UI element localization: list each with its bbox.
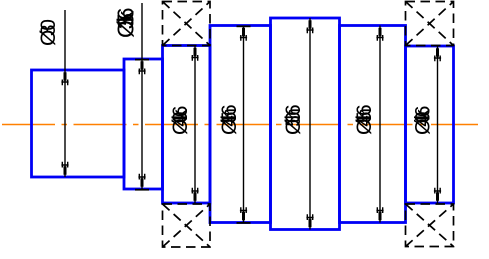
shaft step 4 [210,26,271,223]
shaft step 5 [271,18,340,230]
dimension text Ø50h6 (step 5) [282,105,305,135]
shaft step 2 [124,59,163,189]
dimension arrow d7 top (points up) [434,48,441,61]
bearing B1 top (dashed box with X) [163,2,211,46]
dimension arrow d2 bottom (points down) [138,174,145,187]
dimension arrow d4 bottom (points down) [240,207,247,220]
dimension arrow d1 top (points up) [61,72,68,85]
dimension arrow d2 top (points up) [138,61,145,74]
centerline (horizontal dash-dot axis) [2,124,478,126]
dimension arrow d5 top (points up) [306,20,313,33]
shaft step 6 [340,26,406,223]
dimension line d3 [194,46,196,204]
dimension arrow d1 bottom (points down) [61,162,68,175]
dimension text Ø40k6 (step 3) [169,106,192,135]
dimension arrow d7 bottom (points down) [434,188,441,201]
tick at d4 bottom edge [237,222,251,224]
bearing B1 bottom (dashed box with X) [163,204,211,247]
dimension arrow d6 bottom (points down) [376,207,383,220]
dimension text Ø45h6 (step 6) [353,105,376,135]
dimension line d2 [141,3,143,189]
dimension arrow d4 top (points up) [240,28,247,41]
dimension text Ø30 (step 1) [37,20,60,46]
dimension text Ø40k6 (step 7) [412,106,435,135]
dimension arrow d6 top (points up) [376,28,383,41]
bearing B2 bottom (dashed box with X) [406,204,454,247]
bearing B2 top (dashed box with X) [406,2,454,46]
dimension line d4 [243,26,245,223]
dimension line d1 [64,10,66,177]
tick at d4 top edge [237,25,251,27]
dimension text Ø35k6 (step 2) [113,8,139,38]
dimension text Ø45h6 (step 4) [218,105,241,135]
dimension arrow d3 bottom (points down) [191,188,198,201]
dimension arrow d3 top (points up) [191,48,198,61]
tick at d2 bottom edge [135,189,149,191]
dimension line d5 [309,18,311,230]
dimension line d7 [437,46,439,203]
shaft step 7 (right bearing seat) [406,46,454,203]
dimension arrow d5 bottom (points down) [306,214,313,227]
tick at d2 top edge [135,59,149,61]
shaft step 3 (left bearing seat) [163,46,211,204]
dimension line d6 [379,26,381,223]
shaft step 1 [32,70,125,177]
